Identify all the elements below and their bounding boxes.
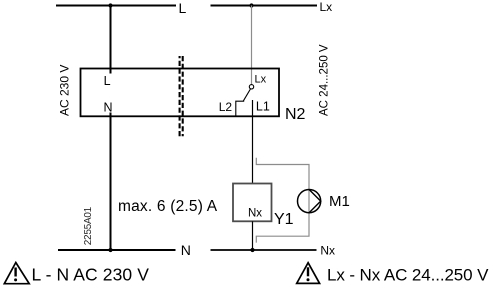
svg-text:Y1: Y1 <box>274 211 294 228</box>
wire pump branch (gray) <box>256 158 309 243</box>
junction dot on Lx rail <box>249 3 253 7</box>
switch blade <box>243 89 250 101</box>
svg-text:Lx: Lx <box>320 0 333 14</box>
svg-text:Nx: Nx <box>320 244 335 258</box>
wire N return from N2 <box>110 113 112 251</box>
svg-text:2255A01: 2255A01 <box>83 206 94 245</box>
svg-text:Nx: Nx <box>248 207 262 219</box>
junction dot on L rail <box>108 3 112 7</box>
isolation barrier dashed line 1 <box>179 56 181 136</box>
warning triangle left <box>4 263 29 284</box>
svg-text:L - N AC 230 V: L - N AC 230 V <box>32 264 150 284</box>
actuator Y1 box <box>233 184 272 222</box>
svg-text:N: N <box>181 242 191 258</box>
svg-text:L1: L1 <box>256 100 270 114</box>
svg-text:M1: M1 <box>329 193 350 210</box>
svg-text:L2: L2 <box>219 100 233 114</box>
wire Nx rail <box>211 249 317 251</box>
junction dot on Nx rail <box>250 248 254 252</box>
svg-text:L: L <box>179 0 187 16</box>
svg-text:AC 230 V: AC 230 V <box>58 65 72 116</box>
pump M1 triangle chords <box>309 190 321 213</box>
pump M1 circle <box>298 190 321 213</box>
wire Lx supply rail <box>211 5 318 7</box>
isolation barrier dashed line 2 <box>182 56 184 136</box>
wire L feed to N2 <box>110 6 112 74</box>
wire L1 output to Y1 <box>252 100 254 184</box>
wire N rail <box>58 249 176 251</box>
svg-text:Lx: Lx <box>255 74 267 86</box>
svg-text:N2: N2 <box>285 106 306 123</box>
warning triangle right <box>297 263 320 284</box>
wire L2 step <box>236 101 244 116</box>
junction dot on N rail <box>108 248 112 252</box>
wire Lx feed to switch (gray) <box>251 6 253 85</box>
wire L supply rail <box>56 5 176 7</box>
switch contact circle <box>249 85 253 89</box>
wire Y1 to Nx rail <box>252 221 254 250</box>
svg-text:max. 6 (2.5) A: max. 6 (2.5) A <box>118 198 218 215</box>
svg-text:Lx - Nx AC 24...250 V: Lx - Nx AC 24...250 V <box>327 265 489 284</box>
svg-text:N: N <box>104 100 113 114</box>
svg-text:AC 24...250 V: AC 24...250 V <box>318 44 330 116</box>
svg-text:L: L <box>104 74 111 88</box>
controller N2 box <box>81 69 280 117</box>
